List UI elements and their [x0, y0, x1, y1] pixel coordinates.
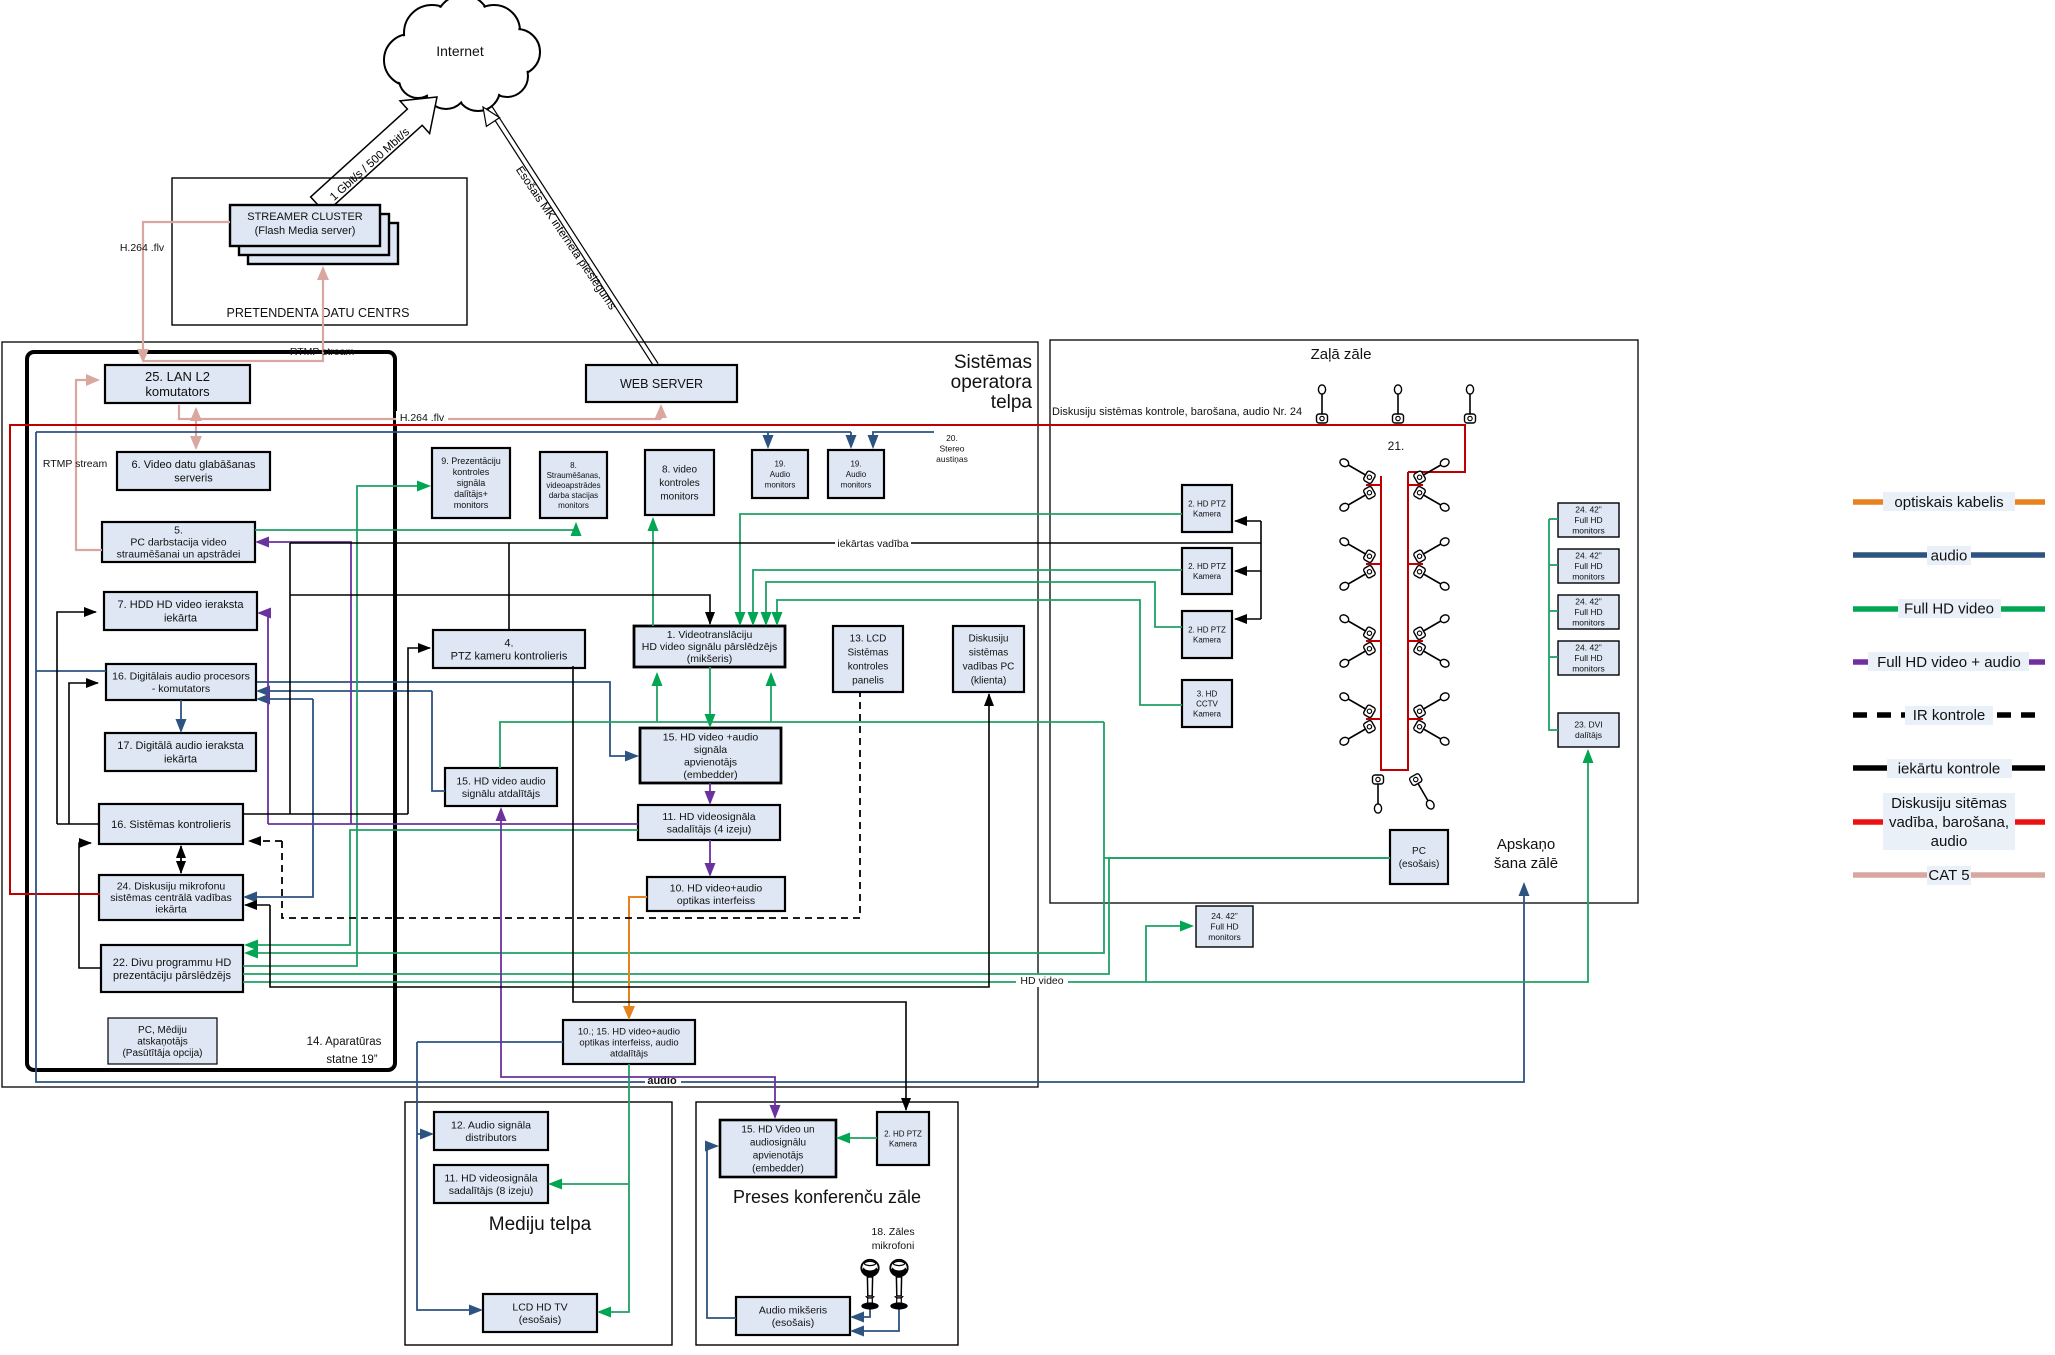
svg-text:Kamera: Kamera [1193, 709, 1222, 718]
svg-text:11. HD videosignāla: 11. HD videosignāla [662, 811, 755, 823]
box PC esosais [1390, 830, 1448, 884]
red mic stub left [1366, 484, 1381, 486]
black wire box22 to box16k [79, 843, 101, 968]
svg-text:Mediju telpa: Mediju telpa [489, 1214, 592, 1235]
svg-text:5.: 5. [174, 525, 183, 537]
pretendenta datu centrs box [172, 178, 467, 325]
green monitor stub [1549, 610, 1558, 612]
label iekartas vadiba [835, 537, 911, 549]
wire audio box24 link [245, 699, 313, 897]
svg-text:16. Digitālais audio procesors: 16. Digitālais audio procesors [112, 670, 250, 682]
svg-text:(esošais): (esošais) [519, 1314, 562, 1326]
svg-text:iekārta: iekārta [155, 904, 187, 916]
wire audio bus to box16 left [36, 670, 106, 672]
wire CAT5 bus to box6 [195, 419, 197, 448]
black riser [289, 543, 291, 814]
black wire into box16k left [57, 823, 99, 825]
red conference table lines [1381, 472, 1408, 770]
box 23 DVI dalitajs [1558, 713, 1619, 747]
black wire box16k to box7 [57, 612, 96, 824]
svg-text:10.; 15. HD video+audio: 10.; 15. HD video+audio [578, 1026, 680, 1037]
zala zale box [1050, 340, 1638, 903]
box web server [586, 365, 737, 402]
svg-text:21.: 21. [1388, 439, 1405, 453]
svg-text:PTZ kameru kontrolieris: PTZ kameru kontrolieris [451, 650, 568, 662]
wire audio top bus [36, 431, 851, 433]
box 11 HD videosignala sadalitajs 8 izeju [434, 1165, 548, 1203]
black double arrow box16k box24 [180, 846, 182, 873]
wire black control to box4 [408, 648, 430, 814]
wire red diskusiju box24 to zala zale [10, 425, 1465, 894]
svg-text:PC, Mēdiju: PC, Mēdiju [138, 1025, 187, 1036]
svg-text:prezentāciju pārslēdzējs: prezentāciju pārslēdzējs [113, 970, 232, 982]
svg-text:Zaļā zāle: Zaļā zāle [1311, 346, 1372, 363]
wire green to PC esosais [1104, 857, 1390, 859]
svg-text:(Flash Media server): (Flash Media server) [255, 225, 356, 237]
svg-text:dalītājs+: dalītājs+ [454, 489, 488, 499]
red mic stub right [1408, 484, 1423, 486]
svg-text:sadalītājs (8 izeju): sadalītājs (8 izeju) [449, 1185, 534, 1197]
wire audio to box16 right arrow [258, 698, 313, 700]
svg-text:24. 42”: 24. 42” [1575, 643, 1602, 653]
box 5 PC darbstacija [102, 522, 255, 562]
box 19 audio monitors a [752, 450, 808, 498]
svg-text:Kamera: Kamera [1193, 635, 1222, 644]
audio arrow to stereo austinas [873, 432, 934, 447]
label H264 flv bus [396, 411, 448, 424]
press hall microphone 2 [890, 1260, 907, 1310]
big arrow streamer->internet with 1 Gbit/s label [311, 97, 437, 213]
wire CAT5 bus to web server [660, 406, 662, 419]
svg-text:darba stacijas: darba stacijas [549, 491, 598, 500]
monitor 24 42 full HD 3 [1558, 595, 1619, 629]
svg-text:iekārtas vadība: iekārtas vadība [837, 538, 908, 550]
svg-text:monitors: monitors [558, 501, 589, 510]
wire green camera2 to mixer [753, 570, 1182, 624]
black arrow camera2 [1235, 570, 1261, 572]
svg-text:signālu atdalītājs: signālu atdalītājs [462, 788, 540, 800]
svg-text:monitors: monitors [1572, 618, 1605, 628]
svg-text:- komutators: - komutators [152, 683, 210, 695]
wire black box24 to klienta PC [270, 694, 989, 987]
wire audio atdalitajs to audio procesors [258, 690, 432, 692]
camera 2 HD PTZ kamera 2 [1182, 548, 1232, 594]
top microphones row [1317, 385, 1328, 423]
wire black control to mixer [290, 595, 710, 624]
green monitor stub [1549, 656, 1558, 658]
svg-text:25. LAN L2: 25. LAN L2 [145, 369, 210, 384]
svg-text:Stereo: Stereo [939, 444, 964, 454]
wire green bus mixer outputs [500, 722, 1104, 768]
svg-text:Audio: Audio [846, 470, 867, 479]
svg-text:audio: audio [1931, 547, 1968, 564]
svg-text:PRETENDENTA DATU CENTRS: PRETENDENTA DATU CENTRS [227, 306, 410, 320]
svg-text:RTMP stream: RTMP stream [43, 458, 108, 470]
wire purple to atdalitajs [500, 809, 502, 824]
wire audio box16 to box17 [180, 700, 182, 731]
black arrow camera1 [1235, 520, 1261, 522]
svg-text:H.264 .flv: H.264 .flv [120, 242, 165, 254]
svg-text:audiosignālu: audiosignālu [750, 1138, 806, 1149]
wire green to 8 izeju [550, 1183, 629, 1185]
svg-text:Diskusiju sitēmas: Diskusiju sitēmas [1891, 795, 2007, 812]
svg-text:(mikšeris): (mikšeris) [687, 653, 733, 665]
svg-text:sistēmas centrālā vadības: sistēmas centrālā vadības [110, 892, 231, 904]
svg-text:Full HD: Full HD [1574, 561, 1602, 571]
box 4 PTZ kameru kontrolieris [433, 630, 585, 668]
svg-text:optiskais kabelis: optiskais kabelis [1894, 494, 2003, 511]
svg-text:24. 42”: 24. 42” [1575, 551, 1602, 561]
dashed IR arrow box16k [249, 840, 282, 842]
svg-text:Sistēmas: Sistēmas [954, 352, 1032, 373]
legend line diskusiju sistemas vadiba barosana audio [1853, 819, 2045, 825]
svg-text:IR kontrole: IR kontrole [1913, 707, 1986, 724]
green arrow up mixer in2 [770, 674, 772, 722]
box 19 audio monitors b [828, 450, 884, 498]
svg-text:LCD HD TV: LCD HD TV [512, 1301, 567, 1313]
svg-text:13. LCD: 13. LCD [850, 634, 887, 645]
red mic stub left [1366, 640, 1381, 642]
monitor 24 42 full HD 4 [1558, 641, 1619, 675]
svg-text:iekārta: iekārta [164, 613, 198, 625]
wire audio atdalitajs link [432, 691, 445, 791]
aparaturas statne rack box [27, 352, 395, 1070]
wire CAT5 box5 to LAN [76, 380, 102, 550]
svg-text:monitors: monitors [1572, 526, 1605, 536]
svg-text:signāla: signāla [694, 744, 727, 756]
svg-text:Diskusiju sistēmas kontrole, b: Diskusiju sistēmas kontrole, barošana, a… [1052, 406, 1302, 418]
svg-text:15. HD video audio: 15. HD video audio [456, 775, 545, 787]
box PC mediju atskanotajs [108, 1018, 217, 1064]
black control to box4 top [508, 543, 510, 630]
box 16 sistemas kontrolieris [99, 804, 243, 844]
wire green box22 to PC esosais [243, 858, 1390, 974]
svg-text:24. 42”: 24. 42” [1211, 911, 1238, 921]
red mic stub right [1408, 640, 1423, 642]
wire mic1 to mixer [852, 1306, 870, 1317]
wire purple embedder to box11 [709, 783, 711, 803]
wire CAT5 RTMP to streamer stack [143, 268, 323, 361]
box 8 straumesanas darba stacijas monitors [540, 452, 607, 518]
green monitor bus [1549, 519, 1558, 730]
svg-text:sistēmas: sistēmas [969, 648, 1008, 659]
wire green cctv to mixer [777, 600, 1182, 705]
svg-text:HD video: HD video [1020, 975, 1063, 987]
red mic stub right [1408, 563, 1423, 565]
svg-text:Full HD: Full HD [1574, 515, 1602, 525]
box 8 video kontroles monitors [645, 450, 714, 515]
svg-text:(esošais): (esošais) [1399, 859, 1440, 870]
red mic stub left [1366, 563, 1381, 565]
box 10 HD video audio optikas interfeiss [647, 877, 785, 911]
svg-text:24. 42”: 24. 42” [1575, 597, 1602, 607]
box 7 HDD HD video ieraksta iekarta [104, 592, 257, 630]
box 6 video datu glabasanas serveris [117, 452, 270, 490]
svg-text:(esošais): (esošais) [772, 1317, 815, 1329]
legend line audio [1853, 552, 2045, 558]
svg-text:videoapstrādes: videoapstrādes [546, 481, 600, 490]
svg-text:19.: 19. [774, 459, 785, 468]
camera 2 HD PTZ kamera 1 [1182, 485, 1232, 532]
wire green mixer to video kontroles monitors [652, 519, 654, 626]
svg-text:Kamera: Kamera [889, 1139, 918, 1148]
wire green box22 to box9 [243, 486, 429, 966]
box 9 prezentaciju kontroles dalitajs monitors [432, 448, 510, 518]
svg-text:(embedder): (embedder) [683, 769, 737, 781]
box 25 LAN L2 komutators [105, 365, 250, 403]
svg-text:monitors: monitors [454, 500, 489, 510]
svg-text:(Pasūtītāja opcija): (Pasūtītāja opcija) [122, 1048, 202, 1059]
dashed IR kontrole to LCD panel [282, 692, 860, 918]
box 1 videotranslaciju miksseris [634, 626, 785, 667]
svg-text:šana zālē: šana zālē [1494, 855, 1558, 872]
box audio mikseris esosais [736, 1297, 850, 1335]
svg-text:RTMP stream: RTMP stream [290, 346, 355, 358]
wire green mixer to embedder [709, 667, 711, 726]
svg-text:11. HD videosignāla: 11. HD videosignāla [444, 1172, 537, 1184]
svg-text:apvienotājs: apvienotājs [684, 756, 737, 768]
box LCD HD TV esosais [483, 1294, 597, 1332]
box 10 15 optikas interfeiss audio atdalitajs [563, 1020, 695, 1064]
svg-text:8.: 8. [570, 461, 577, 470]
wire purple to box7 [259, 613, 268, 824]
green monitor stub [1549, 564, 1558, 566]
svg-text:Kamera: Kamera [1193, 509, 1222, 518]
camera 2 HD PTZ kamera preses [877, 1112, 929, 1165]
svg-text:Kamera: Kamera [1193, 572, 1222, 581]
legend line iekartu kontrole [1853, 765, 2045, 771]
svg-text:H.264 .flv: H.264 .flv [400, 412, 445, 424]
green monitor stub [1549, 518, 1558, 520]
streamer cluster stack [248, 223, 398, 264]
sistemas operatora telpa box [2, 342, 1038, 1087]
svg-text:Audio: Audio [770, 470, 791, 479]
label HD video [1016, 974, 1068, 987]
box 12 audio signala distributors [434, 1112, 548, 1150]
wire green camera1 to mixer [740, 514, 1182, 624]
black wire box16k to box16p [69, 683, 98, 824]
svg-text:monitors: monitors [841, 480, 872, 489]
wire black iekartas vadiba bus [290, 542, 1261, 544]
svg-text:(klienta): (klienta) [971, 676, 1007, 687]
svg-text:telpa: telpa [991, 392, 1033, 413]
svg-text:Audio mikšeris: Audio mikšeris [759, 1304, 827, 1316]
box 15 HD video audio apvienotajs embedder [640, 728, 781, 783]
svg-text:20.: 20. [946, 433, 958, 443]
legend line full hd video + audio [1853, 659, 2045, 665]
svg-text:operatora: operatora [951, 372, 1033, 393]
svg-text:audio: audio [1931, 833, 1968, 850]
svg-text:12. Audio signāla: 12. Audio signāla [451, 1119, 531, 1131]
svg-text:mikrofoni: mikrofoni [872, 1240, 915, 1252]
svg-text:optikas interfeiss, audio: optikas interfeiss, audio [579, 1037, 678, 1048]
svg-text:iekārta: iekārta [164, 754, 198, 766]
svg-text:Full HD: Full HD [1574, 607, 1602, 617]
wire purple box11 to box10 [709, 840, 711, 875]
svg-text:17. Digitālā audio ieraksta: 17. Digitālā audio ieraksta [117, 740, 244, 752]
svg-text:15. HD Video un: 15. HD Video un [741, 1125, 814, 1136]
svg-text:24. Diskusiju mikrofonu: 24. Diskusiju mikrofonu [117, 881, 226, 893]
preses konferencu zale box [696, 1102, 958, 1345]
svg-text:kontroles: kontroles [659, 478, 700, 489]
svg-text:22. Divu programmu HD: 22. Divu programmu HD [113, 957, 232, 969]
wire green preses camera to embedder [838, 1137, 877, 1139]
svg-text:HD video signālu pārslēdzējs: HD video signālu pārslēdzējs [642, 641, 777, 653]
svg-text:15. HD video +audio: 15. HD video +audio [663, 731, 759, 743]
black box16k bus [243, 813, 408, 815]
svg-text:atdalītājs: atdalītājs [610, 1048, 648, 1059]
svg-text:signāla: signāla [457, 478, 486, 488]
svg-text:apvienotājs: apvienotājs [753, 1151, 804, 1162]
svg-text:9. Prezentāciju: 9. Prezentāciju [441, 456, 501, 466]
wire green optical to LCD TV [599, 1064, 629, 1312]
svg-text:panelis: panelis [852, 676, 884, 687]
svg-text:monitors: monitors [765, 480, 796, 489]
wire CAT5 bus to LAN bottom [195, 409, 197, 419]
svg-text:monitors: monitors [1572, 572, 1605, 582]
svg-text:PC darbstacija video: PC darbstacija video [130, 537, 226, 549]
press hall microphone 1 [861, 1260, 878, 1310]
svg-text:2. HD PTZ: 2. HD PTZ [1188, 562, 1226, 571]
black camera control vertical [1260, 521, 1262, 619]
wire orange optical interface link [629, 897, 647, 1018]
wire CAT5 streamer to LAN [143, 222, 230, 361]
camera 3 HD CCTV kamera [1182, 680, 1232, 727]
wire purple to box5 [257, 542, 351, 824]
wire black box4 to preses camera [573, 666, 906, 1110]
wire purple to preses embedder [501, 824, 775, 1117]
svg-text:kontroles: kontroles [453, 467, 490, 477]
svg-text:vadības PC: vadības PC [963, 662, 1015, 673]
svg-text:2. HD PTZ: 2. HD PTZ [1188, 499, 1226, 508]
svg-text:kontroles: kontroles [848, 662, 889, 673]
wire green HD video bus to DVI [243, 751, 1588, 982]
svg-text:3. HD: 3. HD [1197, 689, 1218, 698]
wire audio box16 to embedder [257, 682, 637, 756]
svg-text:Straumēšanas,: Straumēšanas, [547, 471, 601, 480]
svg-text:23. DVI: 23. DVI [1574, 720, 1602, 730]
svg-text:Full HD video + audio: Full HD video + audio [1877, 654, 2021, 671]
svg-text:24. 42”: 24. 42” [1575, 505, 1602, 515]
svg-text:monitors: monitors [1572, 664, 1605, 674]
svg-text:2. HD PTZ: 2. HD PTZ [884, 1129, 922, 1138]
wire mic2 to mixer [852, 1306, 899, 1331]
svg-text:10. HD video+audio: 10. HD video+audio [670, 882, 763, 894]
wire green to lower monitor [1146, 926, 1192, 982]
wire purple bus [268, 823, 638, 825]
svg-text:16. Sistēmas kontrolieris: 16. Sistēmas kontrolieris [111, 819, 231, 831]
svg-text:sadalītājs (4 izeju): sadalītājs (4 izeju) [667, 824, 752, 836]
wire green camera3 to mixer [766, 582, 1182, 627]
box 13 LCD sistemas kontroles panelis [833, 626, 903, 692]
svg-text:4.: 4. [504, 637, 513, 649]
svg-text:1. Videotranslāciju: 1. Videotranslāciju [667, 629, 753, 641]
svg-text:Apskaņo: Apskaņo [1497, 836, 1555, 853]
bottom microphones [1373, 775, 1384, 813]
svg-text:6. Video datu glabāšanas: 6. Video datu glabāšanas [132, 459, 256, 471]
box 16 digitalais audio procesors [106, 664, 256, 700]
svg-text:WEB SERVER: WEB SERVER [620, 377, 703, 391]
green arrow up mixer in1 [656, 674, 658, 722]
svg-text:Preses konferenču zāle: Preses konferenču zāle [733, 1187, 921, 1207]
svg-text:CAT 5: CAT 5 [1928, 867, 1969, 884]
mediju telpa box [405, 1102, 672, 1345]
box 11 HD videosignala sadalitajs 4 izeju [638, 805, 780, 840]
svg-text:8. video: 8. video [662, 465, 697, 476]
wire audio down to LCD TV [417, 1042, 481, 1310]
wire audio main bus to apskanosana [36, 432, 1524, 1082]
audio arrow to monitor b [850, 432, 852, 447]
monitor 24 42 full HD 1 [1558, 503, 1619, 537]
box 15 HD video audio signalu atdalitajs [445, 768, 557, 806]
box diskusiju sistemas vadibas PC klienta [953, 626, 1024, 692]
svg-text:iekārtu kontrole: iekārtu kontrole [1898, 761, 2001, 778]
legend line ir kontrole [1853, 712, 2045, 718]
svg-text:2. HD PTZ: 2. HD PTZ [1188, 625, 1226, 634]
svg-text:Internet: Internet [436, 43, 484, 59]
svg-text:atskaņotājs: atskaņotājs [137, 1037, 188, 1048]
svg-text:straumēšanai un apstrādei: straumēšanai un apstrādei [117, 549, 241, 561]
legend line optiskais kabelis [1853, 499, 2045, 505]
svg-text:komutators: komutators [145, 384, 210, 399]
label audio bold [645, 1073, 681, 1086]
svg-text:Full HD: Full HD [1210, 922, 1238, 932]
svg-text:Diskusiju: Diskusiju [968, 634, 1008, 645]
esosais MK interneta pieslegums arrow [492, 107, 658, 364]
svg-text:7. HDD HD video ieraksta: 7. HDD HD video ieraksta [118, 599, 245, 611]
box 22 divu programmu HD prezentaciju parsledzejs [101, 945, 243, 992]
svg-text:Sistēmas: Sistēmas [847, 648, 888, 659]
red mic stub left [1366, 718, 1381, 720]
internet cloud [384, 0, 540, 111]
svg-text:optikas interfeiss: optikas interfeiss [677, 895, 755, 907]
monitor 24 42 full HD lower [1196, 906, 1253, 947]
red mic stub right [1408, 718, 1423, 720]
wire green box5 to straumesanas monitors [255, 524, 576, 530]
box 17 digitala audio ieraksta iekarta [105, 733, 256, 771]
wire audio arrow box12 [417, 1133, 432, 1135]
wire green bus to box22 [246, 722, 1104, 953]
svg-text:19.: 19. [850, 459, 861, 468]
svg-text:dalītājs: dalītājs [1575, 730, 1602, 740]
black arrow into box24 [245, 904, 270, 906]
legend line full hd video [1853, 606, 2045, 612]
wire audio to optical box [417, 1041, 563, 1043]
box 24 diskusiju mikrofonu sistemas centrala vadibas iekarta [99, 875, 243, 920]
camera 2 HD PTZ kamera 3 [1182, 611, 1232, 658]
svg-text:(embedder): (embedder) [752, 1164, 804, 1175]
legend line cat 5 [1853, 872, 2045, 878]
svg-text:PC: PC [1412, 846, 1426, 857]
wire green box11 to box22 [246, 830, 638, 945]
svg-text:14. Aparatūras: 14. Aparatūras [307, 1036, 382, 1048]
svg-text:statne 19”: statne 19” [326, 1054, 377, 1066]
svg-text:CCTV: CCTV [1196, 699, 1218, 708]
black arrow camera3 [1235, 618, 1261, 620]
svg-text:Full HD: Full HD [1574, 653, 1602, 663]
svg-text:STREAMER CLUSTER: STREAMER CLUSTER [247, 211, 363, 223]
svg-text:distributors: distributors [465, 1132, 516, 1144]
svg-text:monitors: monitors [660, 492, 698, 503]
svg-text:Full HD video: Full HD video [1904, 601, 1994, 618]
svg-text:18. Zāles: 18. Zāles [871, 1226, 914, 1238]
wire audio mixer to embedder preses [707, 1146, 736, 1318]
monitor 24 42 full HD 2 [1558, 549, 1619, 583]
svg-text:serveris: serveris [174, 472, 213, 484]
svg-text:vadība, barošana,: vadība, barošana, [1889, 814, 2009, 831]
svg-text:monitors: monitors [1208, 932, 1241, 942]
conference table microphones [1338, 456, 1376, 485]
